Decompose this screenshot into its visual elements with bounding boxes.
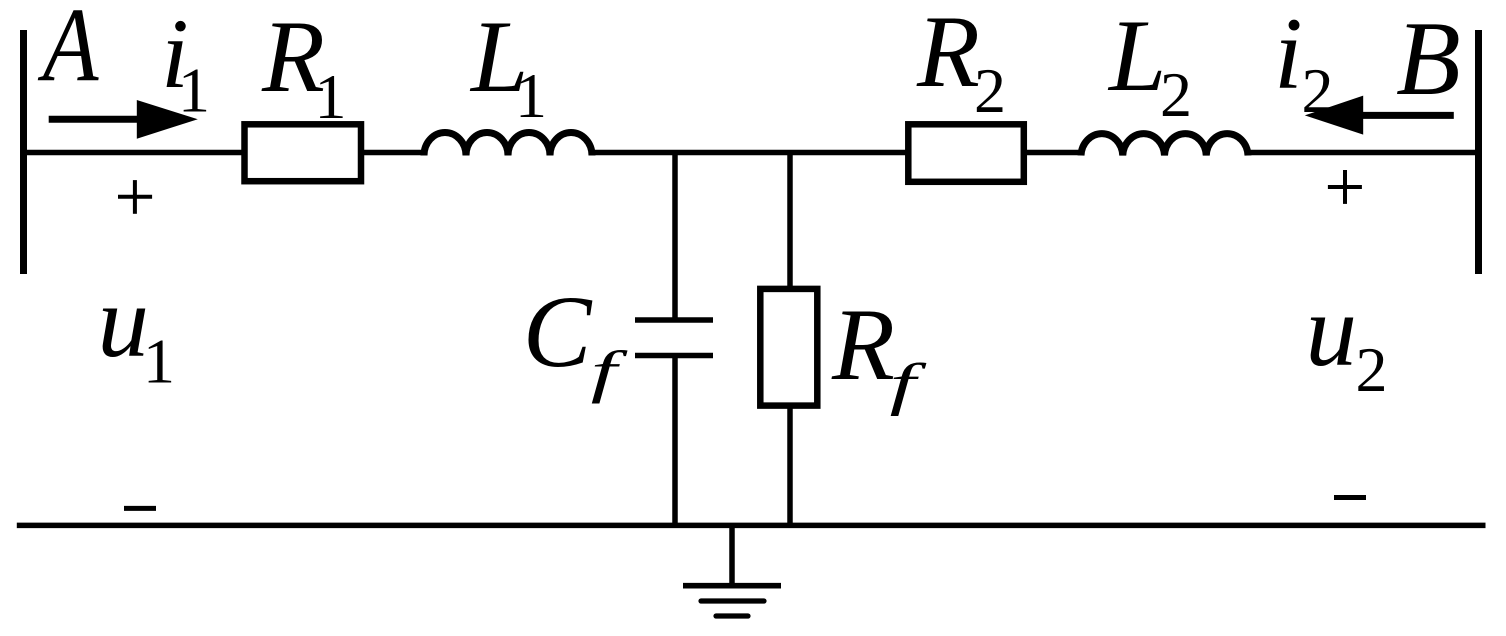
svg-text:1: 1 [515,60,547,131]
svg-text:u: u [98,265,150,379]
resistor Rf [760,289,817,406]
svg-text:2: 2 [1160,59,1192,130]
inductor L1 [424,133,592,156]
svg-text:1: 1 [315,61,347,132]
ground [683,525,781,616]
node A label [37,0,99,104]
capacitor Cf label [523,275,628,404]
voltage u2 minus sign [1334,495,1366,500]
svg-text:C: C [523,275,593,389]
wire: junction down to resistor Rf [787,153,793,290]
svg-text:i: i [1274,0,1303,111]
svg-text:A: A [37,0,99,104]
svg-text:f: f [591,339,628,404]
current i2 label [1274,0,1334,126]
terminal bar at port A [20,30,27,274]
resistor R1 label [261,0,347,132]
current i1 arrow [49,100,198,139]
current i2 arrow [1305,96,1454,135]
svg-text:R: R [831,288,895,402]
capacitor Cf [635,320,713,356]
svg-text:f: f [890,351,927,416]
svg-text:u: u [1306,274,1358,388]
resistor R2 label [916,0,1006,126]
voltage u1 plus sign [118,180,152,214]
inductor L2 [1081,134,1248,156]
wire: resistor Rf to bottom rail [787,405,793,525]
svg-text:L: L [1107,0,1166,113]
resistor Rf label [831,288,927,416]
resistor R1 [245,124,362,181]
inductor L1 label [469,0,547,131]
wire: R1 to L1 [361,150,425,156]
wire: L2 to bar B [1248,150,1481,156]
wire: junction down to capacitor Cf [672,153,678,318]
svg-text:R: R [916,0,980,109]
inductor L2 label [1107,0,1192,130]
svg-text:1: 1 [143,326,175,397]
voltage u2 label [1306,274,1388,405]
voltage u1 label [98,265,176,397]
wire: capacitor Cf to bottom rail [672,356,678,526]
terminal bar at port B [1475,30,1482,274]
resistor R2 [908,124,1024,182]
current i1 label [161,0,210,126]
svg-text:2: 2 [974,55,1006,126]
bottom rail wire [17,523,1486,529]
svg-text:B: B [1396,0,1461,117]
wire: L1 to R2 through middle junctions [592,150,908,156]
wire: R2 to L2 [1024,150,1082,156]
wire: bar A to R1 [21,150,244,156]
voltage u2 plus sign [1328,170,1362,204]
voltage u1 minus sign [124,506,156,511]
svg-text:2: 2 [1356,334,1388,405]
node B label [1396,0,1461,117]
